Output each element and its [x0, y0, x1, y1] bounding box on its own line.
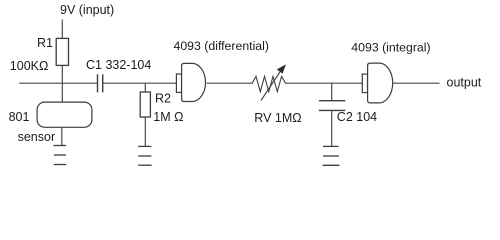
wire RV to gate U2 input	[286, 82, 362, 84]
wire C1 to gate U1 input	[103, 82, 176, 84]
svg-text:R1: R1	[37, 36, 53, 50]
svg-text:output: output	[447, 75, 482, 89]
RV wiper arrow shaft	[261, 71, 280, 100]
svg-text:801: 801	[9, 110, 30, 124]
wire sensor to ground	[61, 127, 63, 145]
wire gate U2 output	[393, 82, 440, 84]
wire main left segment to C1	[19, 82, 97, 84]
svg-text:C2 104: C2 104	[337, 110, 377, 124]
variable resistor RV zigzag	[252, 76, 286, 91]
svg-text:R2: R2	[155, 92, 171, 106]
ground symbol below R2	[138, 146, 151, 165]
resistor R2	[140, 92, 150, 117]
svg-text:C1 332-104: C1 332-104	[86, 58, 151, 72]
capacitor C1 plates	[97, 74, 99, 92]
ground symbol below C2	[323, 146, 340, 165]
wire 9V to R1	[61, 20, 63, 39]
wire node B junction down to R2	[144, 83, 146, 92]
svg-text:sensor: sensor	[18, 130, 56, 144]
svg-text:4093 (differential): 4093 (differential)	[174, 39, 269, 53]
wire R2 to ground	[144, 117, 146, 146]
wire node C junction down to C2	[331, 83, 333, 101]
NAND gate U1 body	[182, 63, 206, 101]
wire gate U1 output to RV	[207, 82, 252, 84]
resistor R1	[56, 38, 68, 65]
RV wiper arrow head	[277, 65, 285, 73]
wire R1 bottom to node A	[61, 65, 63, 83]
capacitor C2 plates	[319, 100, 345, 102]
wire C2 to ground	[331, 110, 333, 146]
svg-text:4093 (integral): 4093 (integral)	[351, 40, 430, 54]
sensor 801 body	[37, 102, 92, 127]
NAND gate U2 body	[368, 63, 393, 103]
svg-text:9V (input): 9V (input)	[60, 3, 114, 17]
svg-text:1M Ω: 1M Ω	[153, 110, 183, 124]
ground symbol below sensor	[54, 146, 67, 165]
svg-text:RV 1MΩ: RV 1MΩ	[254, 111, 301, 125]
svg-text:100KΩ: 100KΩ	[10, 59, 49, 73]
NAND gate U1 4093 differential : input tab	[176, 74, 181, 92]
NAND gate U2 4093 integral : input tab	[362, 74, 367, 93]
node A junction wire to sensor	[61, 83, 63, 102]
